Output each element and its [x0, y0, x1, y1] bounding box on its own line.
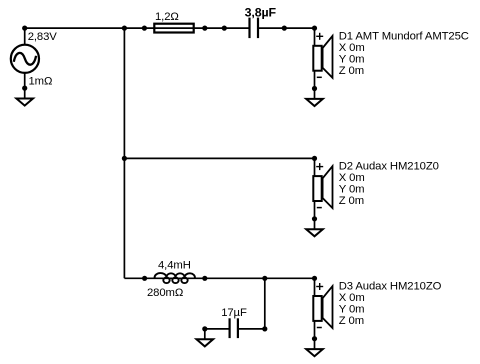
wire: V1 bottom lead: [24, 73, 26, 99]
node: C1 left terminal: [222, 26, 227, 31]
wire: D2 bottom lead: [314, 201, 316, 229]
wire: main vertical bus: [123, 28, 125, 278]
speaker D1 cone: [323, 36, 333, 78]
node: D2 bottom terminal: [312, 216, 317, 221]
capacitor C2: [230, 318, 238, 338]
svg-text:X 0m: X 0m: [339, 172, 365, 184]
node: D1 bottom terminal: [312, 86, 317, 91]
ground (V1): [16, 99, 33, 106]
svg-text:Y 0m: Y 0m: [339, 184, 365, 196]
svg-text:2,83V: 2,83V: [28, 31, 58, 43]
svg-text:Y 0m: Y 0m: [339, 53, 365, 65]
inductor L1: [155, 273, 195, 283]
node: R1 right terminal: [202, 26, 207, 31]
node: D3 bottom terminal: [312, 336, 317, 341]
wire: top net from source to C1 left plate: [25, 27, 250, 29]
svg-text:1mΩ: 1mΩ: [29, 76, 53, 88]
pin label - (D3): [317, 327, 322, 329]
pin label + (D2): [316, 163, 323, 170]
capacitor C1: [250, 18, 259, 38]
ground (D3): [306, 349, 323, 356]
wire: D2 top lead: [314, 158, 316, 176]
V1 body: [11, 45, 39, 73]
svg-text:X 0m: X 0m: [339, 42, 365, 54]
node: L1 left terminal: [142, 276, 147, 281]
node: V1 top terminal: [22, 26, 27, 31]
V1 sine symbol: [14, 53, 36, 65]
speaker D1: [313, 28, 332, 99]
svg-text:4,4mH: 4,4mH: [158, 260, 191, 272]
wire: middle net to D2: [124, 157, 314, 159]
wire: D1 top lead: [314, 28, 316, 46]
svg-text:17µF: 17µF: [221, 307, 247, 319]
pin label - (D1): [317, 76, 322, 78]
pin label - (D2): [317, 207, 322, 209]
ground (D1): [306, 99, 323, 106]
pin label + (D1): [316, 33, 323, 40]
node: C2 left terminal: [202, 326, 207, 331]
svg-text:1,2Ω: 1,2Ω: [155, 11, 179, 23]
wire: bottom net to D3: [124, 277, 314, 279]
svg-text:Z 0m: Z 0m: [339, 315, 364, 327]
svg-text:X 0m: X 0m: [339, 292, 365, 304]
wire: D1 bottom lead: [314, 71, 316, 99]
wire: D3 bottom lead: [314, 321, 316, 349]
wire: stub to ground (C2): [204, 329, 206, 339]
node: L1 right terminal: [202, 276, 207, 281]
svg-text:D1 AMT Mundorf AMT25C: D1 AMT Mundorf AMT25C: [339, 30, 469, 42]
pin label + (D3): [316, 283, 323, 290]
speaker D3: [313, 278, 332, 349]
svg-text:280mΩ: 280mΩ: [147, 287, 183, 299]
node: D1 top terminal: [312, 26, 317, 31]
speaker D1 body: [313, 46, 321, 71]
svg-text:D2 Audax HM210Z0: D2 Audax HM210Z0: [339, 161, 439, 173]
speaker D3 cone: [323, 286, 333, 328]
node: C2 right terminal: [262, 326, 267, 331]
wire: riser down to C2: [264, 278, 266, 329]
speaker D3 body: [313, 296, 321, 321]
resistor R1: [154, 24, 193, 33]
speaker D2 body: [313, 176, 321, 201]
svg-text:Y 0m: Y 0m: [339, 304, 365, 316]
speaker D2: [313, 158, 332, 229]
svg-text:3,8µF: 3,8µF: [245, 5, 277, 19]
node: D2 top terminal: [312, 156, 317, 161]
node: C1 right terminal: [282, 26, 287, 31]
node: D3 top terminal: [312, 276, 317, 281]
node: V1 bottom terminal: [22, 86, 27, 91]
ground (C2): [197, 339, 214, 346]
junction: C2 riser on bottom net: [262, 276, 267, 281]
ground (D2): [306, 229, 323, 236]
wire: V1 top lead: [24, 28, 26, 45]
junction: bus on middle net: [122, 156, 127, 161]
junction: bus on top net: [122, 26, 127, 31]
node: R1 left terminal: [142, 26, 147, 31]
wire: C2 left lead: [205, 328, 230, 330]
voltage source V1: [11, 28, 39, 98]
svg-text:D3 Audax HM210ZO: D3 Audax HM210ZO: [339, 281, 442, 293]
svg-text:Z 0m: Z 0m: [339, 65, 364, 77]
svg-text:Z 0m: Z 0m: [339, 195, 364, 207]
wire: top net from C1 right plate to D1: [258, 27, 315, 29]
speaker D2 cone: [323, 166, 333, 208]
wire: D3 top lead: [314, 278, 316, 296]
wire: C2 right lead: [238, 328, 265, 330]
